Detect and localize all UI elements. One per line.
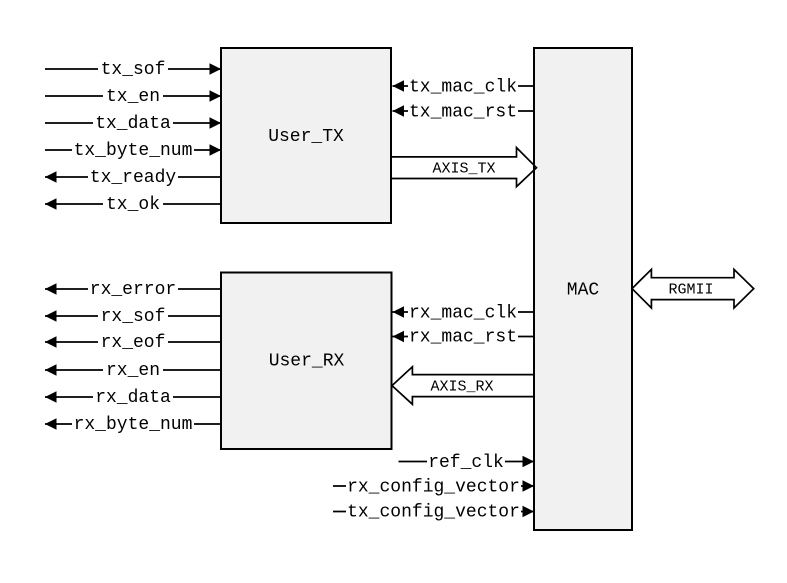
svg-text:User_RX: User_RX	[269, 352, 345, 372]
svg-text:User_TX: User_TX	[268, 127, 344, 147]
svg-text:rx_mac_clk: rx_mac_clk	[409, 304, 517, 324]
svg-text:rx_mac_rst: rx_mac_rst	[409, 328, 517, 348]
svg-text:rx_error: rx_error	[90, 280, 176, 300]
svg-text:MAC: MAC	[567, 281, 600, 301]
svg-text:tx_en: tx_en	[106, 87, 160, 107]
svg-text:RGMII: RGMII	[668, 282, 713, 299]
svg-text:ref_clk: ref_clk	[428, 453, 504, 473]
svg-text:tx_ok: tx_ok	[106, 195, 160, 215]
svg-text:rx_data: rx_data	[95, 388, 171, 408]
svg-text:rx_en: rx_en	[106, 361, 160, 381]
svg-text:AXIS_TX: AXIS_TX	[432, 161, 495, 178]
svg-text:tx_config_vector: tx_config_vector	[347, 503, 520, 523]
svg-text:tx_ready: tx_ready	[90, 168, 177, 188]
svg-text:tx_mac_clk: tx_mac_clk	[409, 78, 517, 98]
svg-text:rx_config_vector: rx_config_vector	[347, 478, 520, 498]
svg-text:rx_sof: rx_sof	[101, 307, 166, 327]
svg-text:tx_mac_rst: tx_mac_rst	[409, 103, 517, 123]
svg-text:AXIS_RX: AXIS_RX	[430, 379, 493, 396]
svg-text:rx_byte_num: rx_byte_num	[74, 415, 193, 435]
svg-text:tx_sof: tx_sof	[101, 60, 166, 80]
svg-text:rx_eof: rx_eof	[101, 333, 166, 353]
svg-text:tx_data: tx_data	[95, 114, 171, 134]
svg-text:tx_byte_num: tx_byte_num	[74, 141, 193, 161]
